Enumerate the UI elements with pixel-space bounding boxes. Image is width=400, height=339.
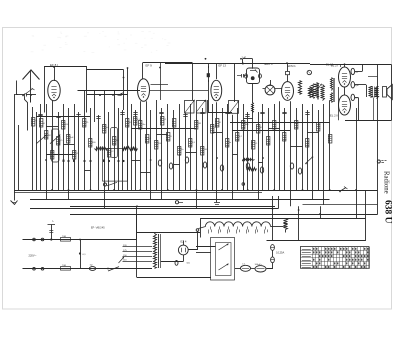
wire xyxy=(351,97,359,120)
value label xyxy=(148,138,152,140)
resistor R21 xyxy=(172,119,176,128)
resistor R32 xyxy=(256,125,260,134)
ground xyxy=(214,191,220,207)
resistor R23 xyxy=(189,139,193,148)
wire xyxy=(40,104,42,190)
switch S5 xyxy=(305,156,313,164)
value label xyxy=(229,142,232,144)
resistor R19 xyxy=(160,117,164,126)
resistor R15 xyxy=(134,117,138,126)
value label xyxy=(245,124,249,126)
resistor R31 xyxy=(251,141,255,150)
resistor R37 xyxy=(306,139,310,148)
heater tap 5 xyxy=(247,227,249,234)
connector ring3 xyxy=(175,201,183,204)
capacitor C18 xyxy=(298,168,301,174)
capacitor bars xyxy=(133,113,137,115)
wire xyxy=(68,190,70,200)
wire xyxy=(284,108,286,190)
capacitor C20 xyxy=(241,264,251,272)
value label xyxy=(92,142,96,144)
bus wire xyxy=(303,204,378,206)
variable capacitor CV1 xyxy=(185,100,196,114)
label EF8 xyxy=(50,63,58,67)
heater tap 7 xyxy=(265,227,268,234)
value label xyxy=(65,124,69,126)
wire xyxy=(338,87,340,120)
wire xyxy=(146,101,148,190)
label EBC3 xyxy=(265,62,274,66)
capacitor bars xyxy=(260,113,264,114)
wire xyxy=(151,84,169,86)
junction xyxy=(298,209,300,211)
wire xyxy=(296,108,298,190)
wire xyxy=(196,252,211,254)
capacitor C17 xyxy=(290,163,293,169)
resistor R7 xyxy=(67,135,71,144)
junction xyxy=(302,189,304,191)
wire xyxy=(46,154,74,156)
junction xyxy=(63,159,65,161)
svg-text:EF 9: EF 9 xyxy=(146,64,153,68)
junction xyxy=(136,205,138,207)
tube V7 EL2 xyxy=(339,95,351,115)
wire xyxy=(196,190,198,209)
capacitor C5 xyxy=(351,68,359,74)
wire xyxy=(290,101,292,190)
wire xyxy=(232,130,290,132)
junction xyxy=(167,189,169,191)
value label xyxy=(48,135,51,137)
wire xyxy=(17,81,19,95)
wire xyxy=(344,64,346,67)
wire xyxy=(202,108,204,190)
transformer tap 175V xyxy=(123,250,153,252)
heater tap 3 xyxy=(228,227,230,234)
value label xyxy=(163,119,167,121)
wire xyxy=(329,100,331,190)
wire xyxy=(237,108,239,190)
top wire right xyxy=(247,63,310,65)
junction xyxy=(53,66,55,68)
connector J2 xyxy=(377,160,386,163)
value label xyxy=(116,140,119,142)
junction xyxy=(45,159,47,161)
trimmer CT2 xyxy=(50,134,60,144)
wire xyxy=(54,67,56,81)
switch S6 xyxy=(339,187,347,193)
wire xyxy=(258,190,260,200)
heater box xyxy=(201,219,366,241)
wire xyxy=(307,110,309,190)
value label xyxy=(76,153,80,155)
value label xyxy=(106,127,110,129)
wire xyxy=(377,65,379,215)
resistor R35 xyxy=(283,133,287,142)
wire xyxy=(207,100,209,190)
resistor R14 xyxy=(126,119,130,128)
resistor R25 xyxy=(201,147,205,156)
capacitor bars xyxy=(159,113,163,114)
capacitor C7 xyxy=(351,94,358,100)
switch box xyxy=(211,238,235,281)
title Radione xyxy=(383,171,390,194)
tube V2 EF9 xyxy=(138,79,150,102)
wire xyxy=(356,108,358,218)
capacitor C15 xyxy=(246,163,249,169)
wire xyxy=(78,112,80,190)
wire xyxy=(344,87,346,95)
capacitor C10 xyxy=(158,160,161,166)
wire xyxy=(272,250,274,257)
junction xyxy=(103,159,105,161)
fuse F3 xyxy=(89,265,119,272)
label EF13 xyxy=(219,64,227,68)
svg-text:Radione: Radione xyxy=(383,171,390,194)
svg-text:EF 13: EF 13 xyxy=(219,64,227,68)
label 1uF xyxy=(242,56,247,60)
tube V8 EZ4 xyxy=(178,245,188,261)
wire xyxy=(36,116,90,118)
resistor R9 xyxy=(83,119,87,128)
trimmer CT1 xyxy=(36,134,46,144)
junction xyxy=(221,189,223,191)
wire xyxy=(156,100,158,190)
resistor R50 xyxy=(284,219,288,233)
wire xyxy=(74,104,76,190)
wire xyxy=(307,132,318,134)
capacitor bars xyxy=(200,113,204,114)
capacitor 1uF top xyxy=(207,66,210,82)
wire xyxy=(298,206,300,240)
wire xyxy=(68,108,70,190)
shield box B2 xyxy=(143,63,193,101)
value label xyxy=(60,140,64,142)
wire xyxy=(78,90,141,92)
bus wire xyxy=(30,199,330,201)
svg-text:EL 2 I: EL 2 I xyxy=(331,64,338,68)
wire xyxy=(323,104,325,205)
label EL12 xyxy=(326,63,334,67)
connector ring xyxy=(104,182,118,186)
wire xyxy=(18,125,20,190)
wire xyxy=(136,206,138,277)
wire xyxy=(150,90,208,92)
wire xyxy=(196,246,216,248)
wire xyxy=(318,110,320,190)
dial lamp L xyxy=(48,220,56,241)
wire xyxy=(262,104,264,190)
wire xyxy=(230,122,330,124)
tube V4 EBC3 xyxy=(263,80,282,95)
heater tap 1 xyxy=(209,227,212,234)
label EFM1 xyxy=(288,64,297,68)
junction xyxy=(103,160,105,162)
plug upper xyxy=(33,238,44,241)
grid cap xyxy=(286,64,290,82)
wire xyxy=(283,226,286,228)
wire xyxy=(235,268,241,270)
resistor R36 xyxy=(295,121,299,130)
junction xyxy=(79,239,81,241)
resistor R41 xyxy=(247,168,257,171)
junction xyxy=(90,189,92,191)
wire xyxy=(131,104,133,190)
wire xyxy=(31,95,37,103)
oscillator coil L3 xyxy=(252,103,254,113)
junction xyxy=(179,154,181,156)
tube V1 EF8 xyxy=(48,80,60,100)
junction xyxy=(73,159,75,161)
resistor R16 xyxy=(139,121,143,130)
capacitor bars xyxy=(245,115,249,117)
junction xyxy=(196,189,198,191)
wire xyxy=(291,146,303,148)
junction xyxy=(262,157,264,159)
wire xyxy=(252,104,254,190)
wire xyxy=(174,164,180,166)
svg-text:220V∼: 220V∼ xyxy=(29,253,38,257)
value label xyxy=(181,149,184,151)
svg-text:EL 2 II: EL 2 II xyxy=(330,114,338,118)
voltage table xyxy=(301,247,370,269)
resistor R11 xyxy=(102,125,106,134)
pickup P1 xyxy=(245,68,262,103)
resistor R4 xyxy=(50,151,54,160)
wire xyxy=(179,104,181,190)
junction xyxy=(89,160,91,162)
wire xyxy=(227,104,229,190)
transformer tap 220V xyxy=(123,245,153,247)
resistor R6 xyxy=(62,121,66,130)
wire xyxy=(137,233,200,234)
value label xyxy=(239,136,243,138)
wire xyxy=(368,76,378,78)
wire xyxy=(90,108,92,190)
svg-text:638 U: 638 U xyxy=(383,200,393,224)
resistor R30 xyxy=(242,121,246,130)
junction xyxy=(319,213,321,215)
wire xyxy=(186,152,197,154)
wave trap box xyxy=(103,149,128,182)
wire xyxy=(302,104,304,190)
fuse R61 xyxy=(61,265,71,270)
wire xyxy=(161,190,163,200)
junction xyxy=(67,160,69,162)
wire xyxy=(140,101,142,190)
chassis bus second xyxy=(14,192,262,194)
junction xyxy=(273,189,275,191)
label EL2a xyxy=(331,64,338,68)
shield box B3 xyxy=(209,64,235,113)
value label xyxy=(111,151,115,153)
wire xyxy=(104,104,106,190)
svg-text:1M: 1M xyxy=(198,123,201,125)
heater chain xyxy=(205,222,283,227)
resistor R33 xyxy=(267,137,271,146)
wire xyxy=(94,90,96,122)
resistor R15 xyxy=(299,81,302,95)
top wire far right xyxy=(310,64,391,66)
wire xyxy=(232,190,234,200)
switch S1 xyxy=(22,88,34,96)
wire xyxy=(58,112,60,190)
resistor R18 xyxy=(155,141,159,150)
mains wire upper xyxy=(23,214,137,240)
wire xyxy=(258,112,260,190)
wire xyxy=(157,134,168,136)
wire xyxy=(14,95,19,191)
value label xyxy=(260,127,263,129)
wire xyxy=(373,98,375,121)
capacitor bars xyxy=(282,113,286,114)
junction xyxy=(122,160,124,162)
wire xyxy=(268,108,270,190)
wire xyxy=(232,115,234,190)
wire xyxy=(190,104,192,190)
resistor R27 xyxy=(215,119,219,128)
svg-text:70Ω: 70Ω xyxy=(62,236,66,238)
resistor R12 xyxy=(107,149,111,158)
resistor R28 xyxy=(226,139,230,148)
wire xyxy=(135,110,137,190)
wire xyxy=(160,63,162,100)
title 638U xyxy=(383,200,393,224)
transformer tap 110V xyxy=(123,260,153,262)
coil former box xyxy=(52,129,60,162)
pilot lamp xyxy=(307,70,311,74)
junction xyxy=(62,160,64,162)
value label xyxy=(169,136,172,138)
wire xyxy=(258,162,263,164)
junction xyxy=(329,189,331,191)
resistor R3 xyxy=(44,131,48,140)
wire xyxy=(114,90,116,104)
fuse F1 xyxy=(271,245,275,251)
wire xyxy=(137,277,211,279)
tube V3 EF13 xyxy=(211,80,222,101)
value label xyxy=(255,143,259,145)
junction xyxy=(127,67,129,69)
junction xyxy=(205,58,207,60)
wire xyxy=(87,94,128,96)
wire xyxy=(167,104,169,190)
output transformer T3 xyxy=(369,87,379,99)
connector heater xyxy=(196,227,205,232)
junction xyxy=(247,189,249,191)
svg-text:0,125A: 0,125A xyxy=(276,250,284,254)
tube V6 EL2 xyxy=(339,67,351,87)
value label xyxy=(43,123,46,125)
capacitor bars xyxy=(56,117,60,118)
junction xyxy=(51,189,53,191)
wire xyxy=(279,101,281,190)
wire xyxy=(340,64,342,67)
wire xyxy=(312,104,314,200)
junction xyxy=(113,189,115,191)
ground xyxy=(11,191,18,205)
wire xyxy=(391,65,393,121)
capacitor bars xyxy=(183,115,187,117)
capacitor C21 xyxy=(255,264,267,272)
label 220V xyxy=(29,253,38,257)
wire xyxy=(365,190,367,218)
value label xyxy=(214,127,218,129)
wire xyxy=(185,113,187,191)
coil L5 xyxy=(243,159,255,161)
capacitor bars xyxy=(76,115,80,117)
wire xyxy=(46,190,48,200)
long top wire xyxy=(165,63,247,65)
resistor R30 xyxy=(309,87,312,98)
plug lower xyxy=(33,267,44,270)
junction xyxy=(83,160,85,162)
capacitor C22 xyxy=(79,240,86,269)
speaker SP xyxy=(383,85,393,100)
resistor R13 xyxy=(112,137,116,146)
coil L10 xyxy=(315,83,319,98)
mains wire lower xyxy=(23,268,153,270)
wire xyxy=(208,112,232,114)
junction xyxy=(355,189,357,191)
resistor R38 xyxy=(317,123,321,132)
transformer tap 150V xyxy=(123,255,153,257)
value label xyxy=(219,122,222,124)
fuse F2 xyxy=(271,257,275,263)
resistor R2 xyxy=(39,119,43,128)
resistor R10 xyxy=(89,139,93,148)
wire xyxy=(52,101,54,191)
tap arrow xyxy=(119,257,125,263)
junction xyxy=(240,58,242,60)
switch S2 xyxy=(219,243,229,250)
wire xyxy=(161,108,163,190)
wire xyxy=(190,190,303,192)
variable capacitor CV3 xyxy=(229,101,240,114)
resistor R20 xyxy=(166,133,170,142)
junction xyxy=(117,160,119,162)
wire xyxy=(127,68,129,190)
capacitor C30 xyxy=(237,74,247,78)
value label xyxy=(86,122,89,124)
junction xyxy=(73,160,75,162)
wire xyxy=(84,90,86,190)
bus wire xyxy=(70,206,275,208)
wire xyxy=(216,102,218,190)
wire xyxy=(222,108,224,190)
arrow tip xyxy=(117,92,123,95)
wire xyxy=(274,104,276,190)
value label xyxy=(70,137,74,139)
wire xyxy=(104,190,106,209)
capacitor bars xyxy=(96,117,100,119)
value label xyxy=(204,149,208,151)
resistor R8 xyxy=(72,151,76,160)
capacitor C14 xyxy=(220,165,223,171)
wire xyxy=(36,112,38,190)
wire xyxy=(278,196,280,209)
top wire xyxy=(242,59,253,69)
resistor R26 xyxy=(210,125,214,134)
wire xyxy=(25,97,28,131)
svg-text:1Ω: 1Ω xyxy=(90,265,93,267)
resistor R1 xyxy=(31,118,35,127)
resistor R34 xyxy=(273,121,276,130)
capacitor C1 xyxy=(19,94,31,97)
wire xyxy=(290,190,292,206)
shield box B1 xyxy=(45,67,87,113)
wire xyxy=(196,113,198,191)
